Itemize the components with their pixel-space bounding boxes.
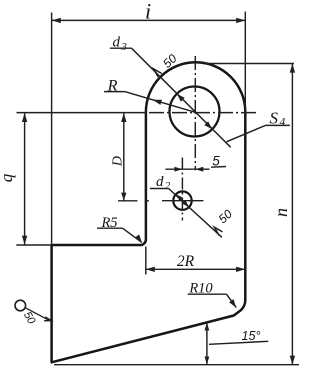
svg-text:d: d bbox=[156, 174, 164, 190]
d2 diagonal dimension line bbox=[169, 189, 222, 238]
svg-text:S: S bbox=[270, 109, 279, 128]
15 deg angle dimension bbox=[206, 323, 208, 365]
svg-text:4: 4 bbox=[280, 117, 286, 129]
dimension 5 bbox=[165, 168, 209, 170]
svg-text:15°: 15° bbox=[242, 329, 261, 343]
50 callout on d3 line bbox=[154, 69, 162, 77]
hole d3 (large circle) bbox=[170, 87, 220, 137]
svg-text:D: D bbox=[111, 156, 126, 167]
extension 2R left bbox=[145, 247, 147, 275]
extension n bottom / 15 deg reference line bbox=[54, 364, 299, 366]
svg-text:n: n bbox=[271, 208, 291, 217]
extension n top bbox=[203, 63, 294, 65]
extension line i left / plate left edge extension bbox=[51, 13, 53, 246]
centerline vertical small circle bbox=[181, 158, 183, 221]
dimension i bbox=[52, 19, 245, 21]
centerline vertical big circle bbox=[194, 56, 196, 170]
centerline horizontal big circle bbox=[17, 112, 146, 114]
extension q bottom (plate edge extended left) bbox=[16, 244, 51, 246]
centerline horizontal small circle + D extension bbox=[118, 200, 204, 202]
hole d2 (small circle) bbox=[173, 191, 191, 209]
dimension q bbox=[24, 113, 26, 245]
d3 diagonal dimension line bbox=[132, 48, 231, 147]
svg-text:q: q bbox=[0, 173, 16, 182]
svg-text:2R: 2R bbox=[177, 253, 195, 270]
plate outline bbox=[52, 62, 246, 362]
extension line i right bbox=[244, 12, 246, 113]
dimension D bbox=[123, 113, 125, 201]
svg-text:5: 5 bbox=[212, 153, 220, 168]
ring 50 callout bottom left bbox=[15, 300, 26, 311]
50 callout on d2 line bbox=[214, 227, 222, 235]
svg-text:i: i bbox=[145, 0, 151, 23]
dimension n bbox=[291, 64, 293, 365]
svg-text:3: 3 bbox=[121, 42, 127, 53]
dimension 2R bbox=[146, 268, 245, 270]
